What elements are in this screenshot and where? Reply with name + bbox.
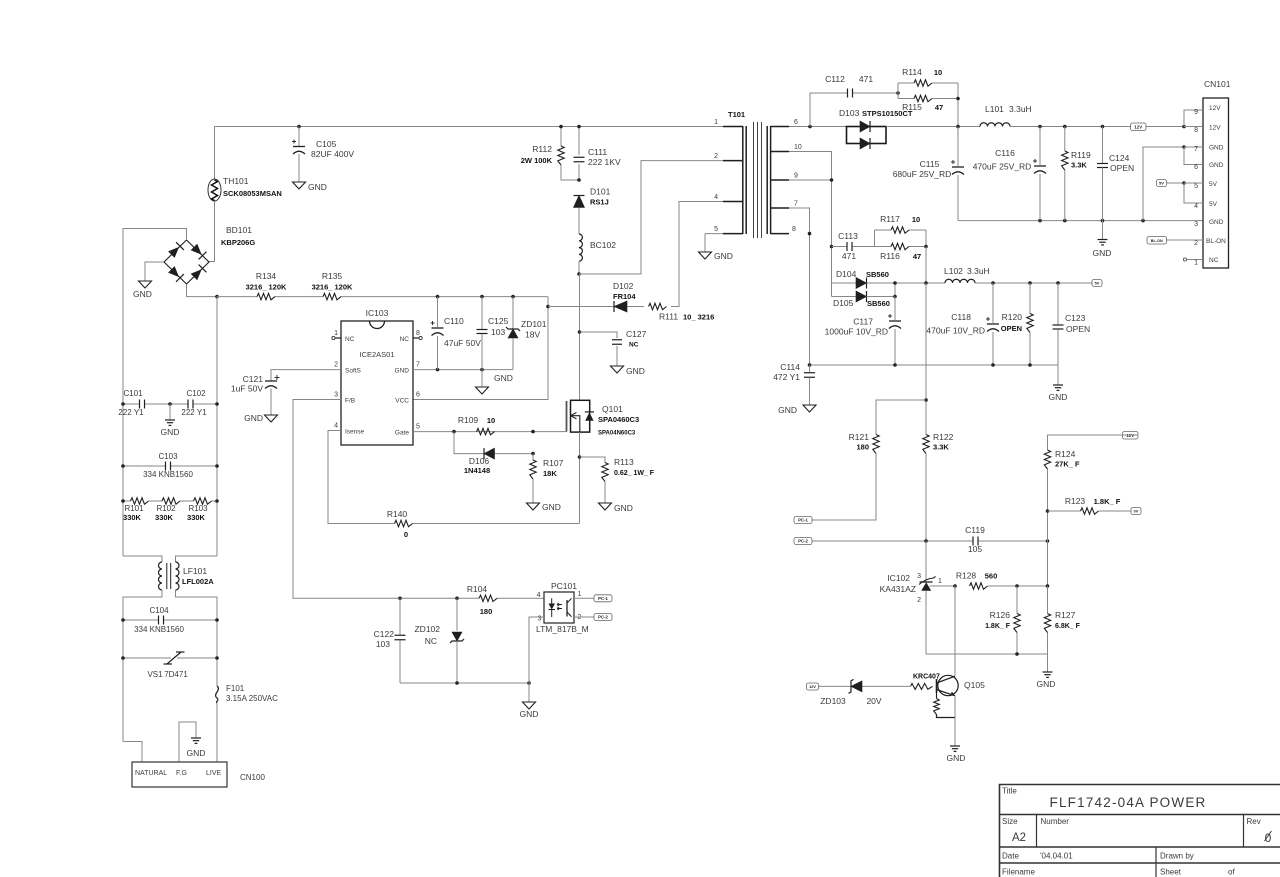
svg-text:R114: R114 (902, 67, 922, 77)
wire R121 to PC-1 tag (812, 454, 876, 521)
svg-text:GND: GND (161, 427, 180, 437)
svg-text:R111: R111 (659, 312, 678, 322)
node R112 top (559, 125, 563, 129)
pin 1 T101 (714, 119, 743, 127)
svg-text:5: 5 (416, 424, 420, 431)
svg-text:SB560: SB560 (867, 299, 890, 308)
node VCC D102 tee (546, 305, 550, 309)
svg-text:470uF 25V_RD: 470uF 25V_RD (973, 162, 1032, 172)
svg-text:R117: R117 (880, 214, 900, 224)
filename field (1002, 868, 1235, 877)
capacitor C117 (825, 297, 901, 366)
svg-text:R116: R116 (880, 251, 900, 261)
svg-text:C115: C115 (920, 159, 940, 169)
svg-text:of: of (1228, 868, 1235, 877)
svg-text:C121: C121 (243, 374, 264, 384)
wire CN101 pin7 pin6 gnd (1143, 147, 1184, 221)
ground PC101 (520, 702, 539, 719)
svg-text:47: 47 (935, 103, 943, 112)
wire neutral to CN100 (123, 742, 142, 763)
node bottom rail taps (1015, 652, 1019, 656)
inductor BC102 (579, 234, 616, 261)
svg-text:C110: C110 (444, 316, 464, 326)
svg-text:Drawn by: Drawn by (1160, 852, 1194, 861)
svg-text:4: 4 (714, 194, 718, 201)
wire pin6 to D103 rail (789, 126, 847, 128)
svg-text:R126: R126 (990, 610, 1011, 620)
svg-text:GND: GND (947, 753, 966, 763)
ground FG (187, 738, 206, 758)
ground BD101 (133, 281, 152, 299)
shunt regulator IC102 KA431AZ (880, 541, 955, 654)
wire Q101 source (579, 432, 581, 523)
node startup rail left (215, 295, 219, 299)
svg-text:C116: C116 (995, 148, 1015, 158)
capacitor C112 (825, 74, 873, 98)
svg-text:9: 9 (794, 173, 798, 180)
wire snubber drop C111 (578, 127, 580, 156)
pin 4 T101 (714, 194, 743, 202)
svg-text:1: 1 (578, 591, 582, 598)
svg-text:Gate: Gate (395, 430, 409, 437)
wire C112 branch (810, 93, 848, 127)
svg-text:TH101: TH101 (223, 176, 249, 186)
resistor R111 (649, 303, 715, 321)
resistor R117 (880, 214, 920, 233)
pin 7 T101 (771, 201, 798, 209)
svg-text:F.G: F.G (176, 770, 187, 777)
ground R113 (599, 503, 633, 513)
node pin6 snubber tap (808, 125, 812, 129)
svg-text:3.15A 250VAC: 3.15A 250VAC (226, 694, 278, 703)
svg-text:R121: R121 (849, 432, 870, 442)
svg-text:'04.04.01: '04.04.01 (1040, 852, 1073, 861)
resistor R121 (849, 432, 880, 454)
svg-text:C104: C104 (149, 606, 169, 615)
wire 12V to R124 (1048, 435, 1139, 450)
wire bridge bottom to live line (187, 284, 218, 297)
svg-text:8: 8 (1194, 127, 1198, 134)
wire D106 branch (454, 432, 484, 454)
svg-text:82UF 400V: 82UF 400V (311, 149, 354, 159)
svg-text:GND: GND (244, 413, 263, 423)
svg-text:R103: R103 (188, 504, 208, 513)
node Q105 collector tap (953, 584, 957, 588)
svg-text:C123: C123 (1065, 313, 1086, 323)
thermistor TH101 (208, 176, 282, 201)
wire VS1 line (123, 657, 171, 659)
svg-text:12V: 12V (809, 685, 816, 689)
diode D105 (832, 291, 896, 308)
capacitor C113 (838, 231, 858, 261)
svg-text:C114: C114 (780, 362, 800, 372)
ground C105 (293, 182, 327, 192)
svg-text:Title: Title (1002, 787, 1017, 796)
capacitor C104 (134, 606, 184, 634)
resistor R102 (155, 498, 180, 522)
svg-text:560: 560 (985, 572, 998, 581)
tag BL-ON CN101 (1147, 237, 1167, 245)
ground R107 (527, 502, 561, 512)
wire D101 anode (578, 208, 580, 234)
wire R101 R102 R103 line (123, 500, 131, 502)
svg-text:1N4148: 1N4148 (464, 466, 490, 475)
svg-text:180: 180 (480, 607, 493, 616)
svg-text:5V: 5V (1095, 281, 1100, 286)
bridge rectifier BD101 (164, 225, 255, 284)
svg-text:GND: GND (187, 748, 206, 758)
svg-text:SPA04N60C3: SPA04N60C3 (598, 431, 636, 437)
wire F101 to CN100 (216, 703, 218, 762)
svg-text:GND: GND (133, 289, 152, 299)
fuse F101 (216, 684, 279, 703)
svg-text:IC103: IC103 (366, 308, 389, 318)
svg-text:OPEN: OPEN (1066, 324, 1090, 334)
wire R128 right (988, 585, 1048, 587)
svg-text:3.3K: 3.3K (933, 443, 949, 452)
wire C101 C102 line (123, 403, 140, 405)
svg-text:3216_ 120K: 3216_ 120K (312, 283, 353, 292)
svg-text:R101: R101 (124, 504, 144, 513)
svg-text:A2: A2 (1012, 832, 1026, 844)
node R101 line ends (121, 499, 125, 503)
ground C124 (1093, 221, 1112, 258)
svg-text:470uF 10V_RD: 470uF 10V_RD (926, 326, 985, 336)
ground T101 pin5 (699, 251, 733, 261)
svg-text:D102: D102 (613, 281, 634, 291)
svg-text:0: 0 (404, 530, 408, 539)
wire BC102 to drain node (578, 261, 580, 274)
svg-text:2W 100K: 2W 100K (521, 156, 553, 165)
pin 1 CN101 NC (1183, 258, 1186, 261)
svg-text:ZD102: ZD102 (414, 624, 440, 634)
capacitor C105 (292, 127, 354, 183)
tag 5V CN101 (1157, 180, 1167, 187)
ground IC103 GND rail (476, 370, 513, 394)
svg-text:NC: NC (425, 636, 437, 646)
svg-text:GND: GND (626, 366, 645, 376)
wire R117 R116 parallel (874, 230, 876, 247)
svg-text:C117: C117 (853, 317, 873, 327)
svg-text:471: 471 (842, 251, 856, 261)
wire TH101 branch vertical (208, 127, 215, 262)
svg-text:PC101: PC101 (551, 581, 577, 591)
tag 12V output (1131, 123, 1147, 131)
resistor R115 (902, 95, 943, 112)
ground C127 (611, 366, 645, 376)
connector CN101 body (1203, 79, 1231, 268)
svg-text:7: 7 (1194, 146, 1198, 153)
varistor VS1 (147, 652, 188, 679)
svg-text:GND: GND (520, 709, 539, 719)
wire CN101 pin9 pin8 (1184, 110, 1203, 127)
wire T101 pin5 to ground (705, 233, 743, 235)
capacitor C124 (1097, 127, 1134, 221)
wire C113 branch (832, 246, 848, 248)
wire FB bottom rail (400, 682, 529, 684)
svg-text:GND: GND (1209, 219, 1224, 226)
svg-text:3: 3 (917, 573, 921, 580)
svg-text:STPS10150CT: STPS10150CT (862, 109, 913, 118)
svg-text:NC: NC (1209, 257, 1219, 264)
wire ZD103 line (819, 685, 852, 687)
node C127 tap (578, 330, 582, 334)
wire FG to ground (179, 722, 196, 762)
svg-text:BC102: BC102 (590, 240, 616, 250)
svg-text:2: 2 (334, 362, 338, 369)
wire aux to T101 pin2 (579, 161, 743, 274)
capacitor C122 (374, 598, 406, 683)
node R126 top (1015, 584, 1019, 588)
svg-text:10_ 3216: 10_ 3216 (683, 313, 714, 322)
svg-text:5: 5 (1194, 183, 1198, 190)
svg-text:Number: Number (1041, 817, 1070, 826)
svg-text:1.8K_ F: 1.8K_ F (1094, 497, 1121, 506)
svg-text:47: 47 (913, 252, 921, 261)
resistor R140 (387, 509, 413, 539)
node FB bottom rail (455, 681, 459, 685)
node VCC rail corner (436, 295, 440, 299)
svg-text:R124: R124 (1055, 449, 1076, 459)
svg-text:R127: R127 (1055, 610, 1076, 620)
svg-text:VS1: VS1 (147, 670, 163, 679)
pin 4 IC103 Isense wire (328, 431, 395, 524)
svg-text:PC-1: PC-1 (598, 596, 608, 601)
wire pins7 8 to secondary ground rail (789, 208, 810, 365)
resistor R124 (1044, 449, 1080, 469)
svg-text:C127: C127 (626, 329, 647, 339)
svg-text:FR104: FR104 (613, 292, 636, 301)
svg-text:GND: GND (395, 368, 410, 375)
svg-text:BL-ON: BL-ON (1206, 238, 1226, 245)
svg-text:47uF 50V: 47uF 50V (444, 338, 481, 348)
svg-text:C113: C113 (838, 231, 858, 241)
svg-text:LTM_817B_M: LTM_817B_M (536, 624, 589, 634)
wire live line vertical (216, 297, 218, 556)
svg-text:334 KNB1560: 334 KNB1560 (134, 625, 184, 634)
resistor R113 (580, 457, 655, 503)
svg-text:C101: C101 (123, 389, 143, 398)
wire R124 to node (1047, 469, 1049, 586)
inductor L102 (944, 266, 990, 283)
svg-text:LFL002A: LFL002A (182, 577, 214, 586)
svg-text:NATURAL: NATURAL (135, 770, 167, 777)
pin 9 T101 (771, 173, 798, 181)
svg-text:7: 7 (416, 362, 420, 369)
transformer T101 (728, 110, 771, 238)
svg-text:7: 7 (794, 201, 798, 208)
svg-text:5V: 5V (1209, 201, 1218, 208)
ground C121 (244, 413, 277, 423)
wire snubber to 5V rail (925, 247, 927, 284)
svg-text:SCK08053MSAN: SCK08053MSAN (223, 189, 282, 198)
svg-text:D101: D101 (590, 187, 611, 197)
resistor R109 (458, 415, 495, 435)
node 12V rail taps (1038, 125, 1042, 129)
svg-text:0.62_ 1W_ F: 0.62_ 1W_ F (614, 470, 655, 477)
svg-text:2: 2 (714, 153, 718, 160)
svg-text:C105: C105 (316, 139, 337, 149)
svg-text:R109: R109 (458, 415, 479, 425)
svg-text:Q105: Q105 (964, 680, 985, 690)
wire D102 R111 line (548, 306, 614, 308)
svg-text:330K: 330K (155, 513, 174, 522)
ground C101 C102 midpoint (161, 404, 180, 437)
svg-text:R120: R120 (1002, 312, 1023, 322)
svg-text:3: 3 (1194, 221, 1198, 228)
resistor R123 (1065, 496, 1121, 514)
diode D106 (464, 448, 495, 475)
svg-text:R135: R135 (322, 271, 343, 281)
wire pin10 pin9 to rectifiers (789, 152, 832, 297)
svg-text:18K: 18K (543, 469, 557, 478)
svg-text:GND: GND (1093, 248, 1112, 258)
tag PC-1 at PC101 (594, 595, 612, 602)
date field (1002, 852, 1073, 861)
svg-text:T101: T101 (728, 110, 745, 119)
svg-text:8: 8 (792, 226, 796, 233)
node C111 top (577, 125, 581, 129)
connector CN100 (132, 762, 265, 787)
svg-text:LF101: LF101 (183, 566, 207, 576)
wire D103 to L101 (886, 126, 980, 128)
svg-text:ICE2AS01: ICE2AS01 (359, 350, 394, 359)
svg-text:3.3K: 3.3K (1071, 161, 1087, 170)
tag 12V divider (1123, 432, 1139, 440)
wire CN101 pin5 pin4 (1167, 182, 1185, 184)
capacitor C101 (118, 389, 144, 417)
svg-text:GND: GND (1209, 145, 1224, 152)
wire C127 branch (580, 332, 618, 338)
svg-text:8: 8 (416, 330, 420, 337)
wire C103 line (123, 465, 166, 467)
svg-text:R134: R134 (256, 271, 277, 281)
capacitor C127 (612, 329, 647, 349)
svg-text:Rev: Rev (1247, 817, 1261, 826)
node top rail / C105 junction (297, 125, 301, 129)
node snubber bottom tap (924, 281, 928, 285)
wire C104 line (123, 619, 159, 621)
title text (1002, 787, 1206, 811)
zener diode ZD102 (414, 598, 464, 683)
svg-text:FLF1742-04A POWER: FLF1742-04A POWER (1050, 795, 1207, 810)
node pin8 junction (808, 232, 812, 236)
svg-text:222 Y1: 222 Y1 (181, 408, 207, 417)
zener diode ZD101 (506, 297, 547, 370)
resistor R128 (956, 571, 997, 590)
svg-text:C102: C102 (186, 389, 206, 398)
node R115 right (956, 97, 960, 101)
diode D104 (832, 269, 889, 289)
svg-text:10: 10 (934, 68, 942, 77)
svg-text:GND: GND (1209, 162, 1224, 169)
svg-text:CN101: CN101 (1204, 79, 1231, 89)
svg-text:RS1J: RS1J (590, 198, 609, 207)
svg-text:2: 2 (917, 597, 921, 604)
resistor R122 (923, 432, 954, 454)
resistor R134 (246, 271, 287, 300)
node C103 line ends (121, 464, 125, 468)
pin 8 T101 (771, 226, 796, 234)
svg-text:471: 471 (859, 74, 873, 84)
svg-text:F101: F101 (226, 684, 245, 693)
wire Q105 collector (954, 586, 956, 676)
tag PC-1 feedback (794, 517, 812, 524)
node C101 line ends (121, 402, 125, 406)
resistor R104 (467, 584, 497, 616)
svg-text:GND: GND (614, 503, 633, 513)
wire bridge negative to ground (145, 262, 164, 281)
ground C123 earth (1049, 365, 1068, 402)
svg-text:D105: D105 (833, 298, 854, 308)
svg-text:SPA0460C3: SPA0460C3 (598, 415, 639, 424)
resistor R116 (880, 243, 921, 261)
svg-text:IC102: IC102 (887, 573, 910, 583)
node VS1 line ends (121, 656, 125, 660)
svg-text:BD101: BD101 (226, 225, 252, 235)
svg-text:Isense: Isense (345, 429, 365, 436)
svg-text:R128: R128 (956, 571, 977, 581)
svg-text:6: 6 (416, 392, 420, 399)
svg-text:334 KNB1560: 334 KNB1560 (143, 470, 193, 479)
svg-text:472 Y1: 472 Y1 (773, 372, 800, 382)
resistor R119 (1062, 127, 1091, 221)
svg-text:10: 10 (794, 144, 802, 151)
svg-text:330K: 330K (123, 513, 142, 522)
resistor R126 (985, 586, 1020, 654)
svg-text:4: 4 (1194, 203, 1198, 210)
svg-text:2: 2 (1194, 240, 1198, 247)
svg-text:GND: GND (542, 502, 561, 512)
pin 1 IC103 NC stub (332, 330, 341, 340)
svg-text:222 1KV: 222 1KV (588, 157, 621, 167)
pin 7 IC103 GND wire (413, 369, 513, 371)
svg-text:L101: L101 (985, 104, 1004, 114)
pin 2 T101 (714, 153, 743, 161)
wire PC101 pin2 to tag (574, 616, 594, 618)
svg-text:R107: R107 (543, 458, 564, 468)
svg-text:680uF 25V_RD: 680uF 25V_RD (893, 169, 952, 179)
node C104 line ends (121, 618, 125, 622)
svg-text:6: 6 (794, 119, 798, 126)
wire LF101 top leads (123, 556, 162, 562)
ground divider earth (1037, 654, 1056, 689)
svg-text:5V: 5V (1209, 181, 1218, 188)
wire snubber drop R112 (560, 127, 562, 147)
svg-text:3216_ 120K: 3216_ 120K (246, 283, 287, 292)
svg-text:12V: 12V (1209, 125, 1221, 132)
wire R114 R115 parallel (897, 83, 899, 99)
svg-text:Sheet: Sheet (1160, 868, 1182, 877)
node snubber R114 node (896, 91, 900, 95)
capacitor C110 (431, 297, 482, 370)
svg-text:Q101: Q101 (602, 404, 623, 414)
wire AC input top rail (215, 126, 743, 128)
svg-text:Size: Size (1002, 817, 1018, 826)
node C117 tap (893, 281, 897, 285)
node Q101 source (578, 455, 582, 459)
svg-text:R113: R113 (614, 457, 634, 467)
svg-text:SB560: SB560 (866, 270, 889, 279)
capacitor C102 (181, 389, 207, 417)
node R123 tap (1046, 509, 1050, 513)
svg-text:C122: C122 (374, 629, 395, 639)
svg-text:F/B: F/B (345, 398, 355, 405)
svg-text:12V: 12V (1209, 105, 1221, 112)
svg-text:D103: D103 (839, 108, 860, 118)
wire snubber node down to divider (925, 283, 927, 435)
title block border (1000, 785, 1280, 877)
